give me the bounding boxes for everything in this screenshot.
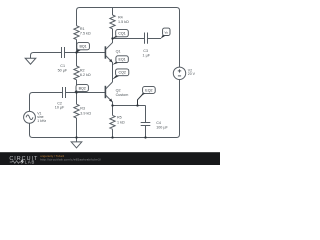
svg-text:CQ2: CQ2 [119,71,126,75]
svg-text:R2: R2 [80,68,85,72]
svg-text:BQ1: BQ1 [79,45,86,49]
svg-text:C1: C1 [60,64,65,68]
svg-text:EQ2: EQ2 [145,88,152,92]
svg-text:Q2: Q2 [116,88,121,92]
svg-text:LAB: LAB [25,160,36,165]
svg-text:1.5 kΩ: 1.5 kΩ [118,20,129,24]
svg-text:1 µF: 1 µF [143,53,151,57]
svg-text:BQ2: BQ2 [79,86,86,90]
svg-text:R1: R1 [80,27,85,31]
svg-text:EQ1: EQ1 [118,58,125,62]
svg-text:http://circuitlab.com/c/e85aah: http://circuitlab.com/c/e85aahvab/tube3/ [40,158,101,162]
svg-text:3.9 kΩ: 3.9 kΩ [80,111,91,115]
svg-text:100 µF: 100 µF [156,125,168,129]
svg-text:R3: R3 [80,107,85,111]
svg-text:6.2 kΩ: 6.2 kΩ [80,73,91,77]
svg-text:R5: R5 [117,116,122,120]
svg-text:R4: R4 [118,15,123,19]
svg-text:20 V: 20 V [188,72,196,76]
svg-text:1 kHz: 1 kHz [37,119,46,123]
svg-text:Custom: Custom [116,93,129,97]
svg-text:Vo: Vo [165,30,169,34]
svg-text:7.5 kΩ: 7.5 kΩ [80,32,91,36]
svg-text:1 kΩ: 1 kΩ [117,120,125,124]
svg-text:Q1: Q1 [116,49,121,53]
svg-text:CQ1: CQ1 [118,32,125,36]
svg-text:10 µF: 10 µF [55,106,65,110]
svg-text:50 µF: 50 µF [58,69,68,73]
